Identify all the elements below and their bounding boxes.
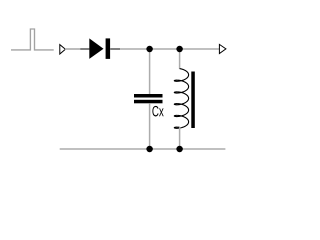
capacitor Cx bottom plate bbox=[134, 100, 163, 104]
label Cx bbox=[152, 106, 163, 117]
inductor L1 coil bbox=[174, 69, 188, 129]
wire capacitor bottom lead bbox=[149, 103, 151, 149]
diode D1 anode triangle bbox=[89, 38, 103, 59]
diode cathode pin bbox=[110, 48, 120, 50]
input port arrow bbox=[60, 45, 66, 54]
pulse source waveform bbox=[11, 29, 54, 50]
node bottom inductor junction bbox=[176, 146, 183, 153]
wire capacitor top lead bbox=[149, 49, 151, 94]
inductor core bar bbox=[191, 72, 195, 129]
wire bottom rail bbox=[60, 148, 226, 150]
wire inductor top lead bbox=[179, 49, 181, 69]
node top capacitor junction bbox=[146, 46, 153, 53]
output port arrow bbox=[219, 44, 226, 53]
diode D1 cathode bar bbox=[106, 38, 111, 59]
node top inductor junction bbox=[176, 46, 183, 53]
wire input to diode bbox=[65, 48, 80, 50]
diode anode pin bbox=[80, 48, 89, 50]
node bottom capacitor junction bbox=[146, 146, 153, 153]
wire inductor bottom lead bbox=[179, 127, 181, 149]
wire diode to output bbox=[120, 48, 219, 50]
capacitor Cx top plate bbox=[134, 94, 163, 98]
